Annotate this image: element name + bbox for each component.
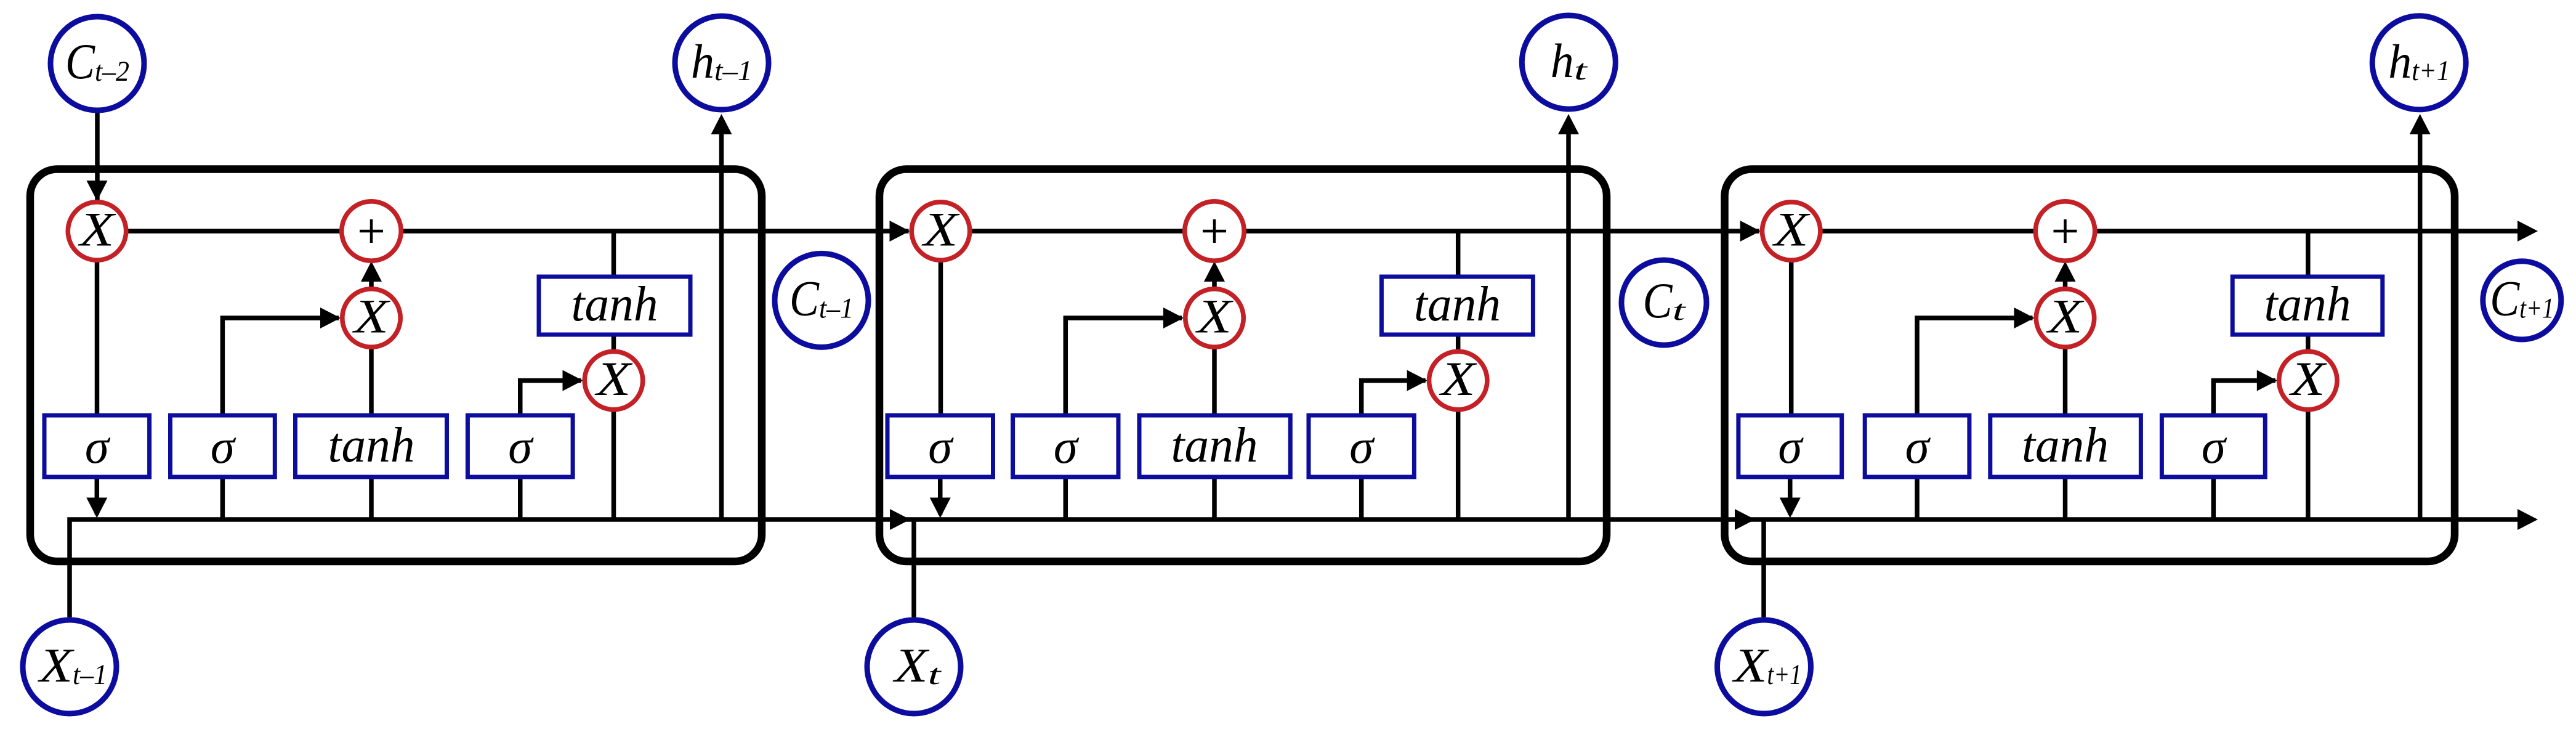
node C_t+1 (cell-state output circle): [2483, 261, 2561, 340]
wire: cell 1 sigma3 down to bus: [518, 477, 523, 519]
svg-text:σ: σ: [85, 420, 111, 474]
node C_t-2 (cell-state input circle): [50, 17, 144, 110]
svg-text:C: C: [65, 33, 95, 89]
svg-text:tanh: tanh: [2264, 277, 2351, 332]
op: cell 1 multiply X1 (forget gate product): [68, 202, 126, 260]
gate: cell 1 tanh (cell-state squash, upper): [539, 277, 690, 335]
svg-text:t–1: t–1: [819, 292, 854, 324]
wire: bus output arrow at far right: [2517, 509, 2538, 530]
svg-text:t: t: [1574, 54, 1588, 86]
wire: cell 3 sigma2 down to bus: [1915, 477, 1920, 519]
wire: cell 3 X1 down to sigma1: [1789, 259, 1794, 415]
svg-text:σ: σ: [211, 420, 236, 474]
svg-text:t–1: t–1: [73, 659, 107, 691]
wire: cell 3 sigma2 bend up into X2: [1917, 318, 2032, 415]
svg-text:X: X: [2288, 352, 2327, 405]
op: cell 1 multiply X3 (output gate product): [584, 351, 642, 409]
op: cell 3 add (+) on cell state: [2035, 202, 2094, 261]
svg-text:tanh: tanh: [328, 418, 415, 473]
svg-text:X: X: [352, 290, 390, 343]
svg-text:X: X: [1772, 203, 1811, 256]
wire: cell 2 bottom tanh up to X2: [1212, 347, 1217, 415]
wire: cell 1 top tanh down to X3: [612, 335, 616, 352]
plus sign cell 2: [1203, 230, 1226, 233]
svg-text:σ: σ: [1905, 420, 1931, 474]
svg-text:X: X: [2046, 290, 2085, 343]
wire: cell 1 sigma2 down to bus: [220, 477, 225, 519]
wire: cell 2 X3 down to bus: [1456, 410, 1461, 520]
svg-text:C: C: [2490, 270, 2520, 326]
svg-text:h: h: [1551, 34, 1574, 88]
op: cell 2 add (+) on cell state: [1185, 202, 1244, 261]
svg-text:t: t: [1673, 295, 1687, 327]
svg-text:t–1: t–1: [714, 55, 753, 87]
svg-text:C: C: [1643, 272, 1673, 328]
wire: cell 2 sigma2 bend up into X2: [1065, 318, 1182, 415]
gate: cell 2 sigma2 (input gate): [1013, 415, 1118, 477]
svg-text:tanh: tanh: [1171, 418, 1258, 473]
node C_t (cell-state circle between cells): [1621, 260, 1706, 345]
gate: cell 2 sigma1 (forget gate): [887, 415, 993, 477]
wire: cell 1 h output line up to h circle: [719, 134, 724, 519]
node X_t-1 (input circle): [23, 620, 116, 714]
wire: cell 3 top line down into top tanh: [2306, 231, 2311, 277]
svg-text:X: X: [1195, 290, 1233, 343]
gate: cell 2 tanh (candidate): [1139, 415, 1290, 477]
wire: bus arrow into cell 2: [890, 509, 910, 530]
LSTM cell 1 rounded border: [30, 169, 762, 562]
op: cell 2 multiply X3 (output gate product): [1429, 351, 1487, 409]
plus sign cell 3: [2054, 230, 2077, 233]
node h_t+1 (hidden output circle): [2372, 16, 2466, 110]
svg-text:t–2: t–2: [95, 55, 129, 88]
wire: cell 2 top tanh down to X3: [1456, 335, 1461, 352]
wire: cell 2 bottom tanh down to bus: [1212, 477, 1217, 519]
op: cell 2 multiply X1 (forget gate product): [911, 202, 969, 260]
wire: cell 2 sigma1 down-arrow to bus: [938, 477, 943, 515]
gate: cell 1 sigma2 (input gate): [171, 415, 275, 477]
wire: cell 2 X1 down to sigma1: [939, 259, 943, 415]
node h_t-1 (hidden output circle): [675, 16, 769, 110]
wire: cell 1 bottom tanh up to X2: [369, 347, 374, 415]
wire: cell 2 cell-state top line: [941, 229, 1759, 234]
wire: cell 3 sigma1 down-arrow to bus: [1788, 477, 1793, 515]
gate: cell 2 sigma3 (output gate): [1309, 415, 1414, 477]
wire: cell 1 X3 down to bus: [612, 410, 616, 520]
wire: cell 1 X2 up-arrow into plus: [369, 271, 374, 289]
wire: cell 2 sigma2 down to bus: [1064, 477, 1068, 519]
wire: cell 1 sigma3 bend up into X3: [520, 381, 581, 416]
node C_t-1 (cell-state circle between cells): [775, 253, 868, 347]
wire: arrow into cell 2 X circle on top line: [890, 221, 910, 242]
op: cell 2 multiply X2 (input gate product): [1185, 289, 1243, 347]
wire: cell 3 h output line up to h circle: [2418, 134, 2423, 519]
wire: cell-state bus C (bottom horizontal h/x bus): [70, 519, 2527, 617]
op: cell 3 multiply X2 (input gate product): [2036, 289, 2094, 347]
wire: cell 1 input line from below into first multiply: [95, 113, 100, 205]
wire: cell 2 input line from below into first multiply: [911, 519, 916, 617]
wire: cell 3 bottom tanh up to X2: [2063, 347, 2068, 415]
svg-text:σ: σ: [508, 420, 534, 474]
svg-text:C: C: [789, 270, 820, 326]
node X_t (input circle): [867, 620, 961, 714]
wire: cell 3 cell-state top line: [1791, 229, 2527, 234]
wire: cell 1 sigma1 down-arrow to bus: [95, 477, 100, 515]
svg-text:X: X: [921, 203, 960, 256]
wire: cell 1 bottom tanh down to bus: [369, 477, 374, 519]
svg-text:tanh: tanh: [571, 277, 658, 332]
svg-text:σ: σ: [2202, 420, 2227, 474]
wire: cell 1 top line down into top tanh: [612, 231, 616, 277]
svg-text:X: X: [594, 352, 633, 405]
svg-text:X: X: [78, 203, 116, 256]
LSTM cell 3 rounded border: [1725, 169, 2455, 562]
wire: cell 3 sigma3 bend up into X3: [2213, 381, 2275, 416]
gate: cell 1 sigma1 (forget gate): [44, 415, 150, 477]
wire: cell 3 X3 down to bus: [2306, 410, 2311, 520]
LSTM cell 2 rounded border: [879, 169, 1607, 562]
svg-text:t+1: t+1: [2412, 55, 2450, 87]
svg-text:X: X: [38, 638, 75, 692]
svg-text:t+1: t+1: [1767, 659, 1802, 691]
gate: cell 3 sigma1 (forget gate): [1738, 415, 1842, 477]
svg-text:σ: σ: [1778, 420, 1804, 474]
wire: cell 3 sigma3 down to bus: [2211, 477, 2216, 519]
svg-text:h: h: [2388, 35, 2412, 88]
svg-text:t: t: [928, 659, 942, 691]
gate: cell 3 sigma3 (output gate): [2162, 415, 2265, 477]
svg-text:X: X: [892, 638, 930, 692]
wire: cell 2 sigma3 bend up into X3: [1362, 381, 1426, 416]
op: cell 3 multiply X1 (forget gate product): [1762, 202, 1820, 260]
gate: cell 3 tanh (candidate): [1990, 415, 2141, 477]
wire: cell 2 top line down into top tanh: [1456, 231, 1461, 277]
gate: cell 1 sigma3 (output gate): [467, 415, 573, 477]
wire: cell-state output arrow at far right: [2517, 221, 2538, 242]
wire: cell 3 input line from below into first multiply: [1761, 519, 1766, 617]
svg-text:t+1: t+1: [2519, 292, 2554, 324]
wire: cell 1 sigma2 bend up into X2: [222, 318, 339, 415]
plus sign cell 1: [360, 230, 383, 233]
node X_t+1 (input circle): [1718, 620, 1811, 714]
gate: cell 3 sigma2 (input gate): [1865, 415, 1969, 477]
wire: cell 2 sigma3 down to bus: [1359, 477, 1364, 519]
svg-text:σ: σ: [928, 420, 954, 474]
svg-text:tanh: tanh: [1414, 277, 1501, 332]
svg-text:tanh: tanh: [2022, 418, 2109, 473]
gate: cell 2 tanh (cell-state squash, upper): [1381, 277, 1533, 335]
wire: cell 1 cell-state top line: [97, 229, 909, 234]
wire: cell 3 X2 up-arrow into plus: [2063, 271, 2068, 289]
svg-text:h: h: [691, 35, 714, 88]
svg-text:X: X: [1732, 638, 1769, 692]
op: cell 1 add (+) on cell state: [342, 202, 401, 261]
op: cell 1 multiply X2 (input gate product): [342, 289, 400, 347]
wire: bus arrow into cell 3: [1735, 509, 1755, 530]
gate: cell 3 tanh (cell-state squash, upper): [2232, 277, 2383, 335]
wire: cell 2 h output line up to h circle: [1566, 134, 1571, 519]
gate: cell 1 tanh (candidate): [296, 415, 447, 477]
svg-text:σ: σ: [1054, 420, 1080, 474]
node h_t (hidden output circle): [1522, 15, 1615, 109]
wire: cell 3 bottom tanh down to bus: [2063, 477, 2068, 519]
wire: cell 3 top tanh down to X3: [2306, 335, 2311, 352]
svg-text:X: X: [1439, 352, 1477, 405]
op: cell 3 multiply X3 (output gate product): [2279, 351, 2337, 409]
wire: cell 2 X2 up-arrow into plus: [1212, 271, 1217, 289]
svg-text:σ: σ: [1349, 420, 1375, 474]
wire: arrow into cell 3 X circle on top line: [1740, 221, 1761, 242]
wire: cell 1 X1 down to sigma1: [95, 259, 100, 415]
